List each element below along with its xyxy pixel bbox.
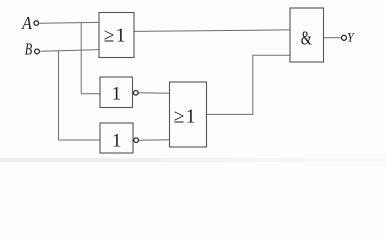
page background xyxy=(0,0,386,162)
wire B input xyxy=(40,50,99,52)
wire NOT1 output to OR2 top input xyxy=(138,92,169,94)
not/buffer U3 box xyxy=(100,123,133,153)
wire A branch horizontal to NOT1 xyxy=(81,93,100,95)
wire riser to AND bottom input xyxy=(252,54,290,56)
scan edge shadow band at bottom xyxy=(0,158,386,162)
wire OR1 output to AND top input xyxy=(134,30,290,32)
svg-text:≥1: ≥1 xyxy=(174,107,197,128)
wire AND output xyxy=(324,37,342,39)
or-gate U4 box xyxy=(170,82,207,147)
terminal Y circle xyxy=(342,35,347,40)
svg-text:A: A xyxy=(21,13,32,33)
wire B branch vertical xyxy=(58,51,60,140)
and-gate U5 box xyxy=(290,8,324,62)
svg-text:≥1: ≥1 xyxy=(104,25,127,46)
not/buffer U2 box xyxy=(100,77,133,108)
inversion bubble U3 output xyxy=(134,138,139,143)
terminal B circle xyxy=(35,49,40,54)
wire riser vertical xyxy=(252,55,254,115)
svg-text:&: & xyxy=(301,28,312,49)
wire B branch horizontal to NOT2 xyxy=(59,139,101,141)
wire A branch vertical xyxy=(80,23,82,94)
svg-text:1: 1 xyxy=(112,130,122,151)
wire A input xyxy=(40,21,100,24)
wire NOT2 output to OR2 bottom input xyxy=(139,139,170,141)
inversion bubble U2 output xyxy=(134,91,139,96)
or-gate U1 box xyxy=(99,13,134,58)
svg-text:1: 1 xyxy=(112,84,122,105)
terminal A circle xyxy=(34,21,39,26)
svg-text:B: B xyxy=(25,39,33,58)
wire OR2 output horizontal xyxy=(207,113,253,115)
